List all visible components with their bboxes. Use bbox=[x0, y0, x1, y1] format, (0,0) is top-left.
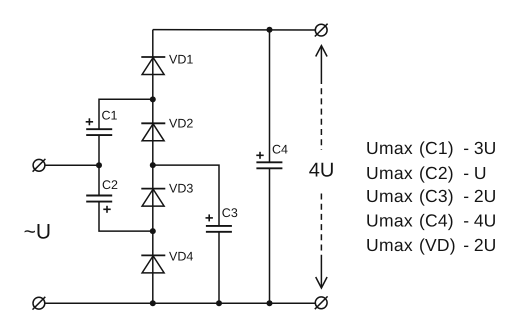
svg-text:Umax: Umax bbox=[366, 235, 413, 255]
diode VD1 bbox=[141, 57, 165, 75]
svg-text:(VD): (VD) bbox=[419, 235, 456, 255]
text Umax (C1) line bbox=[366, 138, 496, 158]
wire C1 upper lead to VD1-VD2 node bbox=[99, 99, 153, 129]
svg-text:Umax: Umax bbox=[366, 138, 413, 158]
wire top bus bbox=[153, 29, 315, 31]
svg-text:Umax: Umax bbox=[366, 211, 413, 231]
terminal input left bbox=[33, 159, 46, 172]
wire input bbox=[45, 164, 99, 166]
svg-text:VD2: VD2 bbox=[169, 117, 193, 131]
junction node C4-top bus bbox=[267, 27, 273, 33]
wire C2 upper lead bbox=[98, 165, 100, 195]
svg-text:C4: C4 bbox=[272, 143, 288, 157]
wire main branch vertical bbox=[152, 30, 154, 304]
capacitor C4 bbox=[256, 162, 282, 168]
polarity plus C2 bbox=[103, 206, 110, 213]
arrow 4U measure top head bbox=[316, 46, 327, 78]
junction node C2-VD3-VD4 bbox=[150, 228, 156, 234]
text Umax (C3) line bbox=[366, 186, 496, 206]
junction node C3-bottom bus bbox=[216, 300, 222, 306]
wire C2 lower lead to VD3-VD4 node bbox=[99, 202, 153, 232]
terminal bottom-left bbox=[33, 297, 46, 310]
arrow 4U measure dashed shaft upper bbox=[320, 78, 322, 150]
capacitor C3 bbox=[206, 226, 232, 232]
svg-text:(C2): (C2) bbox=[419, 163, 454, 183]
capacitor C1 bbox=[86, 129, 112, 135]
text Umax (C4) line bbox=[366, 211, 496, 231]
wire C3 upper lead from VD2-VD3 node bbox=[153, 165, 219, 226]
svg-text:(C1): (C1) bbox=[419, 138, 454, 158]
svg-text:Umax: Umax bbox=[366, 163, 413, 183]
svg-text:VD3: VD3 bbox=[169, 182, 193, 196]
svg-text:~U: ~U bbox=[24, 221, 51, 244]
capacitor C2 bbox=[86, 196, 112, 202]
svg-text:- 3U: - 3U bbox=[463, 138, 496, 158]
wire bottom bus bbox=[45, 302, 316, 304]
svg-text:C3: C3 bbox=[222, 206, 238, 220]
arrow 4U measure dashed shaft lower bbox=[320, 194, 322, 257]
diode VD2 bbox=[141, 123, 165, 141]
svg-text:VD4: VD4 bbox=[169, 249, 193, 263]
wire C4 lower lead bbox=[269, 168, 271, 303]
svg-text:(C4): (C4) bbox=[419, 211, 454, 231]
svg-text:- 2U: - 2U bbox=[463, 235, 496, 255]
junction node input C1-C2 bbox=[96, 162, 102, 168]
arrow 4U measure bottom head bbox=[316, 256, 327, 288]
polarity plus C4 bbox=[256, 152, 263, 159]
svg-text:- 2U: - 2U bbox=[463, 186, 496, 206]
diode VD4 bbox=[141, 255, 165, 273]
terminal output bottom-right bbox=[315, 296, 328, 309]
svg-text:- U: - U bbox=[463, 163, 486, 183]
text Umax (C2) line bbox=[366, 163, 487, 183]
svg-text:- 4U: - 4U bbox=[463, 211, 496, 231]
wire C3 lower lead bbox=[218, 232, 220, 303]
junction node main-bottom bus bbox=[150, 300, 156, 306]
terminal output top-right bbox=[315, 24, 328, 37]
svg-text:4U: 4U bbox=[309, 160, 335, 182]
polarity plus C1 bbox=[86, 118, 93, 125]
junction node C4-bottom bus bbox=[267, 300, 273, 306]
wire C4 upper lead bbox=[269, 30, 271, 163]
svg-text:C2: C2 bbox=[102, 178, 118, 192]
diode VD3 bbox=[141, 189, 165, 207]
wire C1 lower lead bbox=[98, 135, 100, 165]
svg-text:VD1: VD1 bbox=[169, 52, 193, 66]
text Umax (VD) line bbox=[366, 235, 496, 255]
junction node C1-VD1-VD2 bbox=[150, 96, 156, 102]
svg-text:Umax: Umax bbox=[366, 186, 413, 206]
junction node VD2-VD3-C3 bbox=[150, 162, 156, 168]
polarity plus C3 bbox=[206, 214, 213, 221]
svg-text:C1: C1 bbox=[102, 109, 118, 123]
svg-text:(C3): (C3) bbox=[419, 186, 454, 206]
